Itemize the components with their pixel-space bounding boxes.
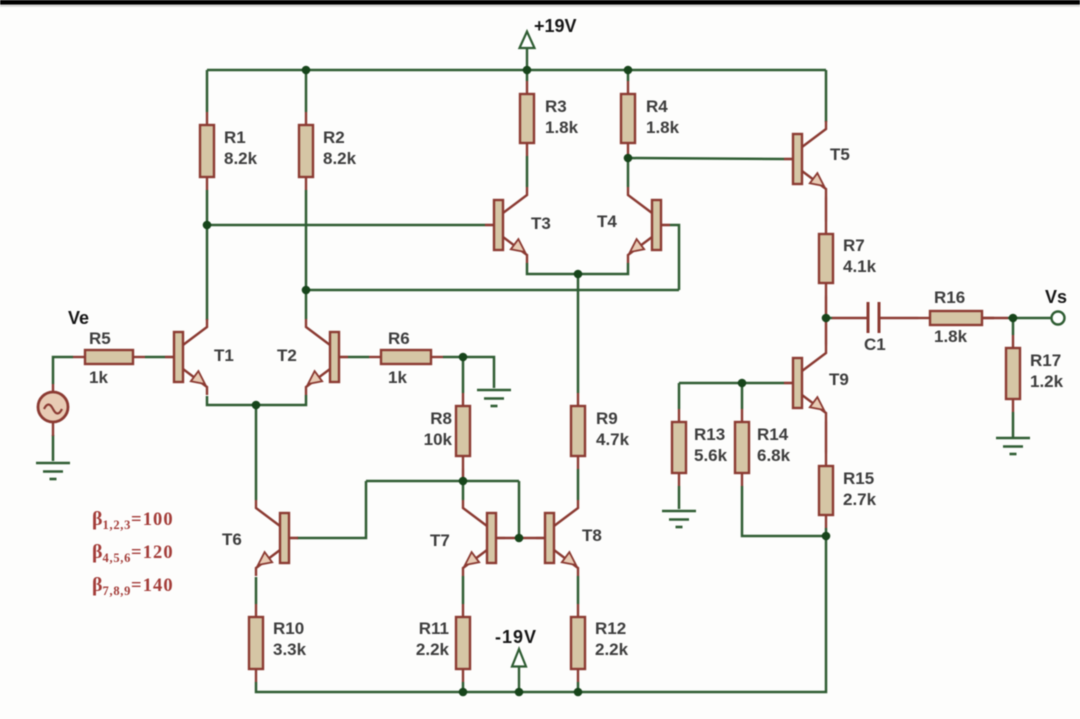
- source Ve (sine generator): [38, 308, 89, 436]
- wire R15 to node: [825, 528, 828, 536]
- svg-text:3.3k: 3.3k: [273, 640, 307, 659]
- resistor R4: [621, 81, 680, 156]
- svg-text:1.8k: 1.8k: [934, 327, 968, 346]
- transistor T1: [165, 319, 234, 395]
- transistor T3: [485, 187, 551, 263]
- wire R16 to Vs: [1008, 317, 1051, 320]
- svg-text:1.2k: 1.2k: [1030, 372, 1064, 391]
- wire T6 emitter to R10: [255, 577, 258, 604]
- resistor R3: [520, 81, 579, 156]
- wire T4 base corner: [670, 225, 679, 290]
- wire T2 base to R6: [348, 356, 369, 359]
- svg-text:R15: R15: [843, 469, 874, 488]
- svg-text:Ve: Ve: [68, 308, 89, 328]
- wire T9 base row: [679, 382, 784, 385]
- wire R12 to rail: [577, 682, 580, 692]
- node R7-C1-T9: [822, 314, 831, 323]
- svg-text:R8: R8: [430, 409, 452, 428]
- node R6-gnd-R8: [459, 353, 468, 362]
- svg-text:6.8k: 6.8k: [757, 446, 791, 465]
- resistor R6: [369, 329, 443, 387]
- resistor R7: [819, 221, 877, 296]
- svg-text:R3: R3: [545, 97, 567, 116]
- svg-text:8.2k: 8.2k: [224, 149, 258, 168]
- wire T1-T2 emitters: [207, 395, 306, 405]
- wire source to R5: [53, 357, 73, 384]
- wire R16 lead: [982, 317, 1008, 320]
- svg-text:R6: R6: [388, 329, 410, 348]
- svg-text:Vs: Vs: [1045, 287, 1067, 307]
- transistor T6: [222, 500, 298, 576]
- wire R5 to T1 base: [145, 356, 165, 359]
- wire to R13: [678, 383, 681, 409]
- svg-text:R5: R5: [89, 329, 111, 348]
- node T9base-R14: [738, 379, 747, 388]
- svg-text:1.8k: 1.8k: [545, 118, 579, 137]
- transistor T8: [536, 500, 602, 576]
- resistor R11: [416, 604, 470, 682]
- svg-text:β1,2,3=100: β1,2,3=100: [92, 508, 174, 532]
- wire node A to T3 base: [207, 224, 485, 227]
- wire R7 to node / T9 collector: [825, 296, 828, 345]
- wire node to C1: [826, 317, 832, 320]
- wire R1 bottom / T1 collector: [206, 190, 209, 320]
- resistor R15: [819, 453, 877, 528]
- svg-text:2.2k: 2.2k: [595, 640, 629, 659]
- svg-text:R7: R7: [843, 236, 865, 255]
- svg-text:R12: R12: [595, 619, 626, 638]
- resistor R14: [735, 409, 791, 486]
- black top bar: [0, 0, 1080, 5]
- wire bias down: [518, 481, 521, 538]
- svg-text:1k: 1k: [89, 368, 108, 387]
- svg-text:T2: T2: [277, 346, 297, 365]
- svg-text:R14: R14: [757, 425, 789, 444]
- wire T8 emitter to R12: [577, 576, 580, 604]
- wire node to R8: [462, 357, 465, 393]
- node rail-R12: [574, 688, 583, 697]
- wire rail to R4: [627, 70, 630, 81]
- svg-text:10k: 10k: [424, 430, 453, 449]
- transistor T4: [597, 187, 670, 263]
- ground (R17): [996, 438, 1030, 454]
- resistor R5: [73, 329, 145, 387]
- svg-text:T3: T3: [531, 214, 551, 233]
- wire rail to T5 collector: [825, 70, 828, 122]
- power +19V symbol: [520, 16, 577, 70]
- wire rail to R3: [526, 70, 529, 81]
- wire rail to R2: [305, 70, 308, 112]
- wire to T6 base: [297, 481, 366, 538]
- wire node B to T4 base: [306, 289, 679, 292]
- power -19V symbol: [495, 627, 537, 692]
- node T7T8-base: [515, 534, 524, 543]
- svg-text:R4: R4: [646, 97, 668, 116]
- svg-text:T5: T5: [830, 145, 850, 164]
- node rail-R3: [523, 66, 532, 75]
- svg-text:+19V: +19V: [534, 16, 577, 36]
- node T1T2-emitters: [252, 401, 261, 410]
- svg-text:5.6k: 5.6k: [694, 446, 728, 465]
- terminal Vs: [1045, 287, 1067, 325]
- svg-text:T9: T9: [829, 370, 849, 389]
- node R14-R15: [822, 532, 831, 541]
- svg-text:C1: C1: [864, 335, 886, 354]
- capacitor C1: [832, 302, 918, 354]
- svg-text:1k: 1k: [388, 368, 407, 387]
- node Vs-R17: [1009, 314, 1018, 323]
- transistor T9: [784, 345, 849, 421]
- svg-text:T8: T8: [582, 526, 602, 545]
- node rail-R2: [302, 66, 311, 75]
- svg-text:R1: R1: [224, 128, 246, 147]
- transistor T2: [277, 319, 348, 395]
- svg-text:T4: T4: [597, 212, 617, 231]
- wire T7-T8 bases: [505, 537, 536, 540]
- node R4-T5base: [624, 154, 633, 163]
- wire to T5 base: [628, 158, 784, 159]
- wire R17 to ground: [1012, 412, 1015, 437]
- svg-text:R17: R17: [1030, 351, 1061, 370]
- node T3T4-emitters: [574, 270, 583, 279]
- resistor R8: [424, 393, 470, 469]
- svg-text:T6: T6: [222, 530, 242, 549]
- resistor R13: [672, 409, 728, 486]
- wire node to ground: [463, 357, 494, 388]
- svg-text:T7: T7: [430, 531, 450, 550]
- wire T9 emitter to R15: [825, 421, 828, 453]
- svg-text:R16: R16: [934, 288, 965, 307]
- resistor R1: [200, 112, 258, 190]
- svg-text:T1: T1: [214, 346, 234, 365]
- svg-text:-19V: -19V: [495, 627, 537, 647]
- wire R8 to T7 collector: [462, 479, 465, 500]
- wire mirror bias row: [366, 480, 519, 483]
- svg-text:8.2k: 8.2k: [323, 149, 357, 168]
- transistor T5: [784, 121, 850, 197]
- svg-text:β7,8,9=140: β7,8,9=140: [92, 574, 174, 598]
- resistor R9: [571, 393, 630, 469]
- wire R8 lead: [462, 469, 465, 479]
- wire bottom -19V rail: [256, 536, 826, 692]
- svg-text:1.8k: 1.8k: [646, 118, 680, 137]
- wire T3-T4 emitters: [527, 263, 628, 274]
- resistor R17: [1006, 335, 1064, 412]
- wire R9 to T8 collector: [577, 469, 580, 500]
- wire node to R17: [1012, 318, 1015, 335]
- node rail-R11: [459, 688, 468, 697]
- wire R2 bottom / T2 collector: [305, 190, 308, 319]
- node B: [302, 286, 311, 295]
- svg-text:4.1k: 4.1k: [843, 257, 877, 276]
- svg-text:β4,5,6=120: β4,5,6=120: [92, 541, 174, 565]
- wire R4 to T4 collector: [627, 156, 630, 187]
- wire R11 to rail: [462, 682, 465, 692]
- wire R13 to ground: [678, 486, 681, 509]
- node rail-R4: [624, 66, 633, 75]
- wire R6 to node: [443, 356, 463, 359]
- transistor T7: [430, 500, 505, 576]
- svg-text:2.7k: 2.7k: [843, 490, 877, 509]
- ground (R13): [662, 511, 696, 527]
- wire emitters to T6 collector: [255, 405, 258, 500]
- svg-text:R10: R10: [273, 619, 304, 638]
- wire top +19V rail: [207, 69, 826, 72]
- ground (R6): [477, 390, 511, 406]
- wire to R14: [741, 383, 744, 409]
- wire source to ground: [52, 435, 55, 461]
- wire emitters to R9: [577, 274, 580, 393]
- svg-text:2.2k: 2.2k: [416, 640, 450, 659]
- svg-text:R11: R11: [419, 619, 449, 638]
- resistor R10: [249, 604, 307, 682]
- wire R14 to bottom node: [742, 486, 826, 536]
- wire rail to R1: [206, 70, 209, 112]
- wire T7 emitter to R11: [462, 576, 465, 604]
- ground (source): [36, 463, 70, 479]
- wire T5 emitter to R7: [825, 197, 828, 221]
- resistor R12: [571, 604, 629, 682]
- svg-text:R13: R13: [694, 425, 725, 444]
- svg-text:4.7k: 4.7k: [596, 430, 630, 449]
- svg-text:R9: R9: [596, 409, 618, 428]
- resistor R2: [299, 112, 357, 190]
- svg-text:R2: R2: [323, 128, 345, 147]
- node rail-19V: [515, 688, 524, 697]
- resistor R16: [918, 288, 994, 346]
- wire R3 to T3 collector: [526, 156, 529, 187]
- node mirror-bias: [459, 477, 468, 486]
- node A: [203, 221, 212, 230]
